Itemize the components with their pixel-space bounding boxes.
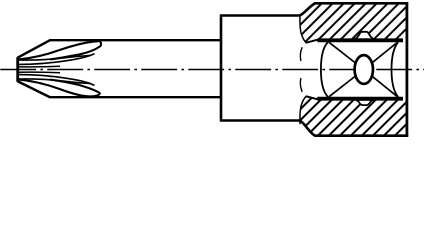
bore lip arc bottom: [300, 78, 302, 92]
hatch left boundary curve top: [300, 15, 306, 43]
centerline (dash-dot axis): [0, 69, 424, 71]
square recess right chamfer arc: [392, 42, 399, 97]
floor taper diagonal left: [306, 96, 318, 99]
detent ball dome (top, white cap over hatch): [353, 32, 376, 40]
detent hole ellipse: [355, 55, 373, 84]
X diagonal top-right: [364, 43, 397, 70]
top near-flute lower curve: [18, 54, 95, 65]
cavity ceiling / square recess top band: [317, 38, 403, 42]
phillips cone lower edge: [18, 81, 50, 97]
bottom near-flute upper curve: [18, 75, 95, 86]
bore lip arc top: [300, 47, 302, 61]
X diagonal bottom-right: [364, 70, 397, 97]
hex shaft bottom edge: [50, 96, 221, 98]
hatch left boundary curve bottom: [300, 96, 306, 124]
top far-flute stub: [18, 65, 60, 68]
hex shaft top edge: [50, 39, 221, 41]
hatching: top wall of sectioned socket body: [300, 3, 406, 42]
X diagonal top-left: [329, 42, 364, 69]
X diagonal bottom-left: [329, 70, 364, 97]
hatching: bottom wall of sectioned socket body: [300, 97, 406, 136]
square recess left end arc: [321, 42, 329, 98]
collar left face: [220, 14, 223, 121]
body right end face edge: [405, 3, 408, 135]
cavity floor / square recess bottom band: [317, 97, 403, 101]
top near-flute upper curve: [18, 55, 91, 60]
collar and body top outline with shoulder: [221, 3, 408, 15]
bottom wing outer curve with tip hook: [18, 80, 100, 97]
collar and body bottom outline with shoulder: [221, 121, 408, 136]
phillips cone upper edge: [18, 40, 50, 58]
bottom near-flute lower curve: [18, 79, 91, 84]
top wing outer curve with tip hook: [18, 41, 101, 59]
bottom far-flute stub: [18, 71, 60, 74]
phillips tip flat: [16, 57, 19, 82]
technical drawing: Phillips screwdriver bit socket adapter, side view with section: [0, 0, 424, 138]
detent ball dome (bottom, white cap over hatch): [355, 100, 374, 105]
ceiling taper diagonal left: [306, 40, 318, 43]
